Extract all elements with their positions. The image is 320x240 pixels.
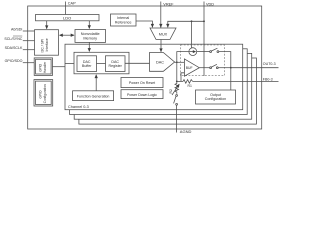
node feedback [176,81,178,83]
svg-text:Channel 0-3: Channel 0-3 [68,105,89,109]
pin AGND [177,105,192,134]
svg-text:Register: Register [109,64,123,68]
wire to current source [191,21,193,48]
svg-text:SCL/SYNC: SCL/SYNC [4,37,22,41]
svg-text:Power Down Logic: Power Down Logic [127,93,157,97]
wire node down to feedback node [176,62,178,81]
node dac output [176,61,178,63]
pin CAP [66,2,77,15]
resistor R2 (variable) [169,81,179,95]
wire VREF to MUX [160,24,162,27]
wire into DAC buffer [65,62,77,64]
dac buffer [77,56,97,72]
wire NVM to dac pair [88,42,90,51]
channel stack echo 4 [79,58,257,124]
op-amp BUF [184,59,199,76]
power down logic [121,90,163,99]
pin VDD [204,2,214,77]
svg-text:MUX: MUX [159,32,168,36]
wire buffer to register [97,63,106,65]
dac cell (pentagon) [150,53,175,72]
switch S1 (current output) [210,48,219,52]
current source I1 [189,48,197,56]
svg-text:Nonvolatile: Nonvolatile [81,32,100,36]
svg-text:Memory: Memory [83,36,97,40]
wire internal reference to MUX [136,21,152,27]
resistor R1 [177,80,279,88]
svg-text:I2C / SPI: I2C / SPI [41,39,45,53]
svg-text:Handler: Handler [43,61,47,73]
interface block I2C/SPI [35,30,59,56]
wire LDO to NVM [88,21,90,29]
wire buf output to switch [199,67,209,69]
nonvolatile memory [75,30,106,43]
pin OUT0-3 [231,62,279,68]
node output [230,67,232,69]
pin GPIO/SDO [5,59,35,63]
power on reset [121,78,163,88]
output configuration [196,90,236,104]
svg-text:VDD: VDD [206,2,214,6]
wire gpio handler to DAC buffer [52,66,65,68]
svg-text:Internal: Internal [117,16,129,20]
wire out node to output configuration [230,68,232,90]
switch S3 (gain/ground) [174,95,178,106]
svg-text:Power On Reset: Power On Reset [129,81,155,85]
function generation [73,91,114,101]
channel stack echo 3 [74,53,252,119]
svg-text:DAC: DAC [156,61,164,65]
wire register to DAC [125,62,150,64]
gpio configuration block [34,80,53,106]
svg-text:Interface: Interface [45,38,49,51]
svg-text:DAC: DAC [83,60,91,64]
svg-text:OUT0-3: OUT0-3 [263,62,276,66]
pin SDA/SCLK [5,46,35,50]
wire interface to NVM (bidirectional) [60,34,75,36]
svg-text:CAP: CAP [68,2,76,6]
node current source tap [191,20,193,22]
wire node up to current source [177,52,189,63]
svg-text:FB0-3: FB0-3 [263,77,273,81]
mux U-MUX [150,28,176,39]
internal reference [111,14,137,26]
dac pair inner rect [74,52,129,74]
wire function generation to dac pair [95,75,97,91]
svg-text:Reference: Reference [115,20,132,24]
wire switch to out node [218,67,231,69]
svg-text:VREF: VREF [163,2,174,6]
wire VDD branch to MUX [168,21,204,27]
dashed analog sub-block [181,45,225,76]
pin A0/SDI [11,27,34,31]
channel front rectangle [65,44,243,110]
wire MUX to DAC [160,40,162,52]
svg-text:LDO: LDO [63,16,71,21]
wire dac to buf + [175,61,185,63]
svg-text:R2: R2 [169,89,173,93]
gpio handler block [34,58,52,76]
svg-text:DAC: DAC [111,60,119,64]
svg-text:AGND: AGND [180,129,192,134]
svg-text:Configuration: Configuration [43,84,47,103]
svg-text:R1: R1 [188,84,192,88]
wire switch to out node [219,52,231,68]
svg-text:Output: Output [210,93,221,97]
svg-text:SDA/SCLK: SDA/SCLK [5,46,23,50]
svg-text:Function Generation: Function Generation [77,94,110,98]
channel stack echo 2 [70,49,248,115]
dac register [106,56,126,72]
node VDD branch [203,20,205,22]
svg-text:Buffer: Buffer [82,64,92,68]
chip outer border [28,6,262,129]
wire buf inverting input jog [181,73,185,82]
wire current source to switch [197,51,210,53]
svg-text:A0/SDI: A0/SDI [11,27,22,31]
svg-text:GPIO/SDO: GPIO/SDO [5,59,23,63]
wire LDO to interface [46,21,48,29]
pin SCL/SYNC [4,36,34,41]
regulator LDO [36,15,100,21]
svg-text:BUF: BUF [186,66,193,70]
pin VREF [161,2,174,29]
switch S2 (buffer output) [210,64,219,68]
svg-text:Configuration: Configuration [205,97,226,101]
